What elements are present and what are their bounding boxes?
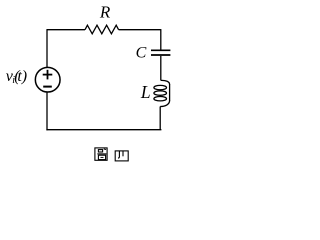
svg-text:L: L [140, 82, 151, 102]
svg-text:R: R [99, 3, 111, 22]
svg-text:C: C [136, 45, 147, 62]
svg-text:vi(t): vi(t) [6, 68, 27, 86]
